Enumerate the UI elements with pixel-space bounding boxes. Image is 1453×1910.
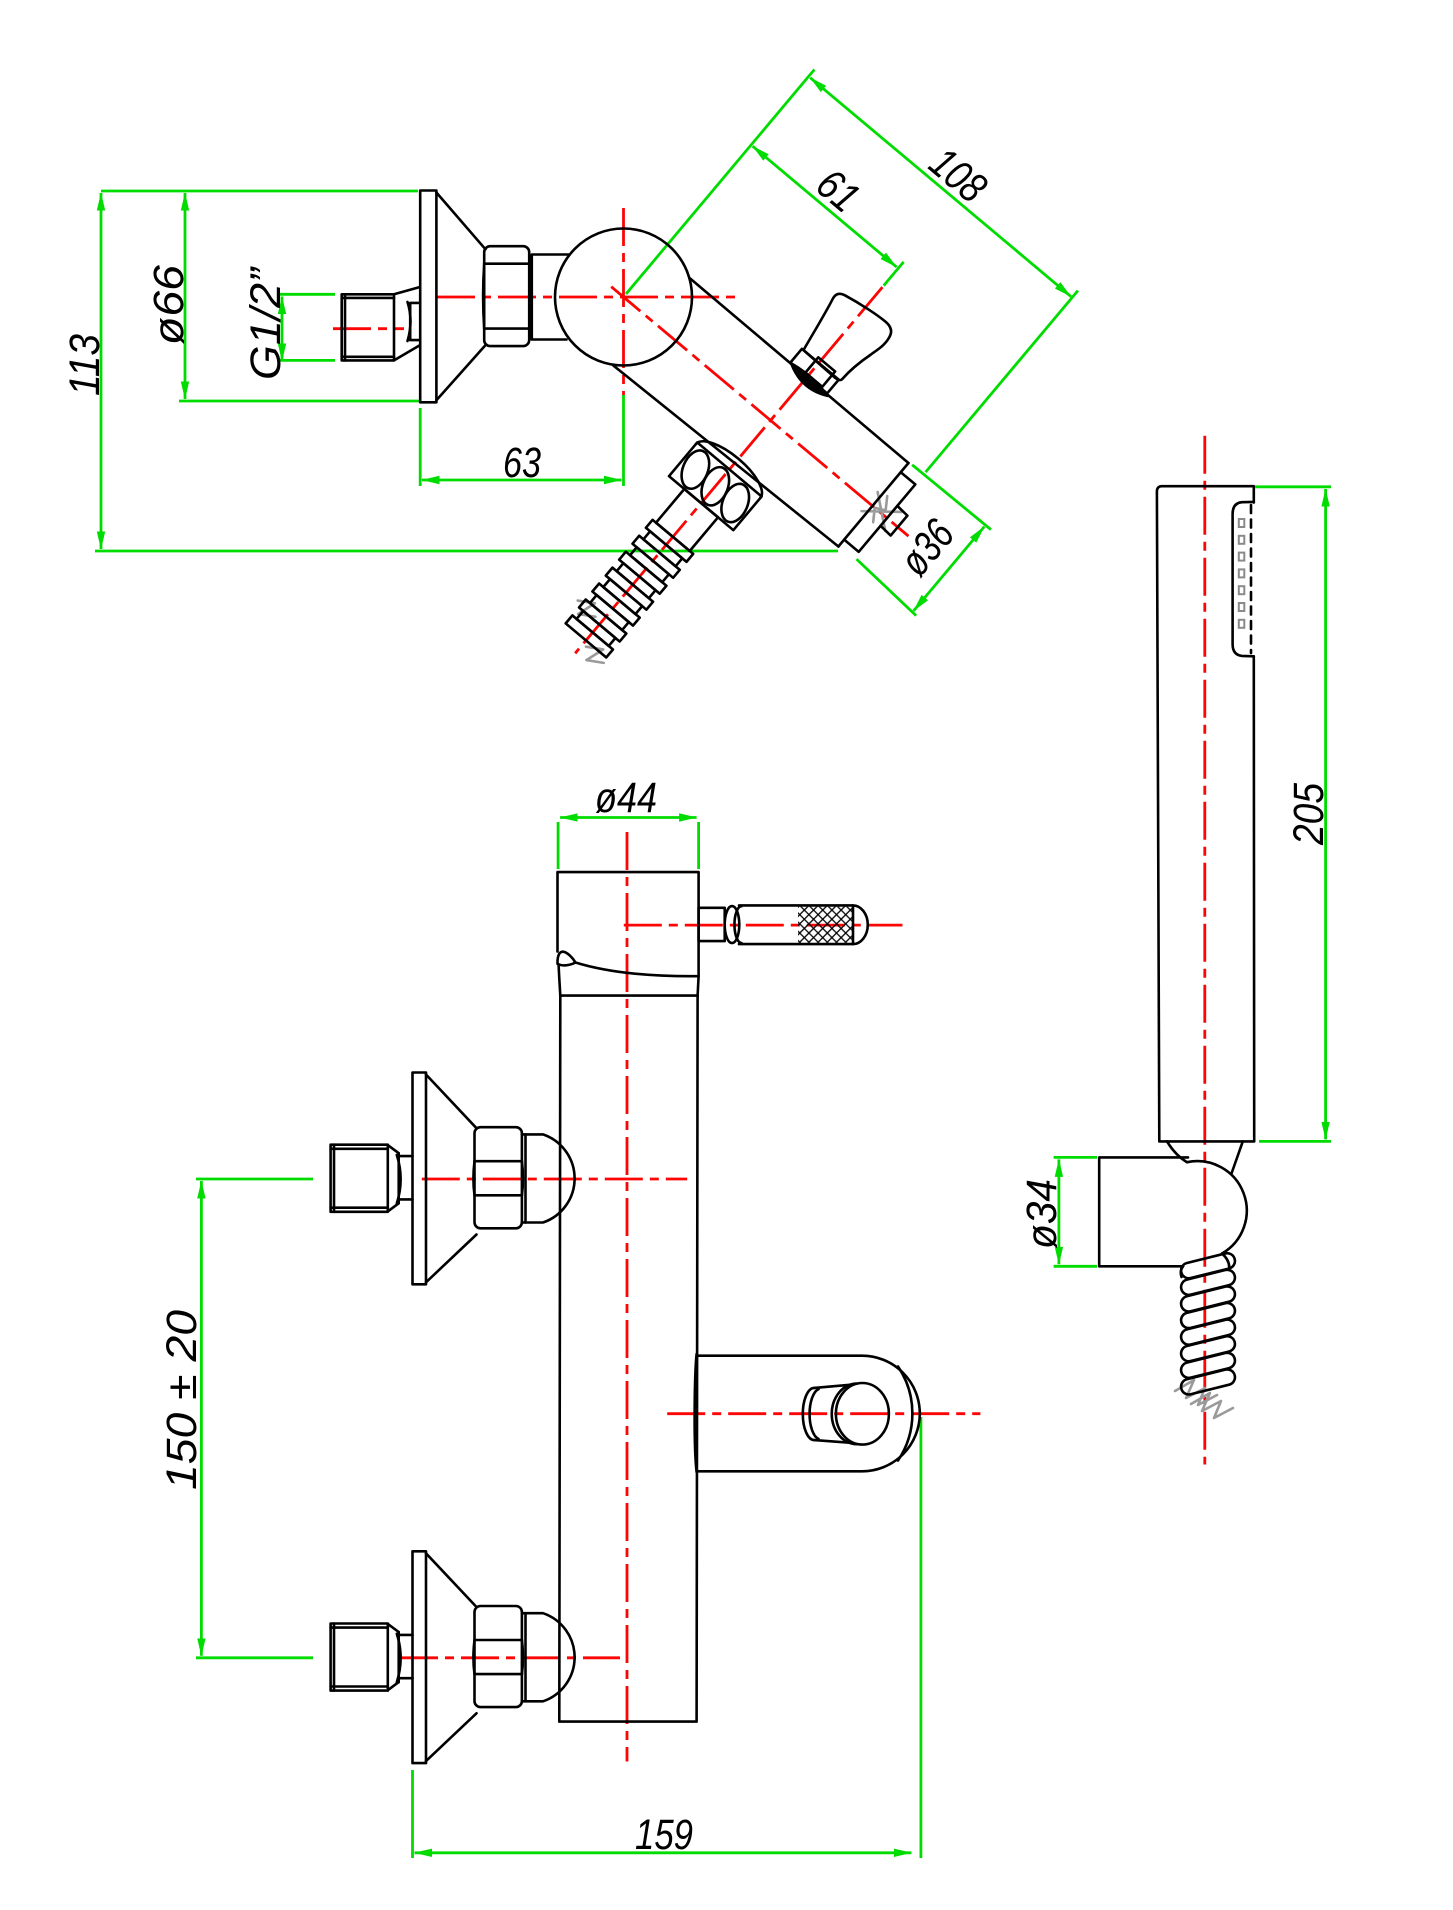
svg-text:63: 63 <box>503 439 541 487</box>
svg-text:ø66: ø66 <box>145 265 193 345</box>
svg-text:205: 205 <box>1285 782 1333 846</box>
svg-text:ø34: ø34 <box>1018 1179 1066 1249</box>
svg-text:G1/2”: G1/2” <box>242 266 290 380</box>
svg-text:113: 113 <box>61 334 109 396</box>
svg-text:150 ± 20: 150 ± 20 <box>158 1310 206 1490</box>
svg-text:159: 159 <box>635 1811 693 1859</box>
svg-text:ø44: ø44 <box>595 774 657 822</box>
